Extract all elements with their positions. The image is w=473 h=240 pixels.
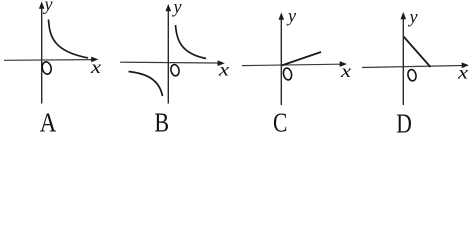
svg-text:x: x [340,62,351,81]
graph B y-axis arrow [166,4,172,11]
graph C x-axis arrow [340,61,347,67]
svg-text:y: y [286,5,296,25]
svg-text:y: y [43,0,53,14]
svg-text:x: x [218,61,229,80]
graph D y-axis [402,18,404,105]
graph A hyperbola branch Q1 [49,20,89,58]
graph B origin O [170,64,180,77]
graph A x-axis [4,59,92,62]
graph B y-axis [167,10,169,104]
graph C y-axis arrow [279,13,285,20]
graph D origin O [407,69,417,82]
graph A y-axis [41,7,43,104]
svg-text:B: B [154,109,169,137]
graph A y-axis arrow [39,2,45,9]
graph B hyperbola branch Q1 [176,25,207,59]
svg-text:D: D [396,109,412,137]
svg-text:x: x [457,64,468,83]
graph C ray from origin [282,52,322,66]
graph A origin O [41,61,52,75]
svg-text:C: C [273,108,287,137]
graph D x-axis arrow [462,62,469,68]
graph D x-axis [362,66,462,68]
graph B x-axis arrow [218,60,225,66]
graph B x-axis [120,61,218,64]
svg-text:y: y [408,7,418,27]
graph C y-axis [280,18,282,105]
graph B hyperbola branch Q3 [129,72,163,97]
graph C x-axis [242,64,340,65]
graph C origin O [282,67,292,80]
svg-text:y: y [172,0,182,17]
graph A x-axis arrow [91,57,98,63]
svg-text:x: x [90,58,101,77]
svg-text:A: A [40,109,57,137]
graph D line segment [404,37,431,68]
graph D y-axis arrow [401,12,407,19]
